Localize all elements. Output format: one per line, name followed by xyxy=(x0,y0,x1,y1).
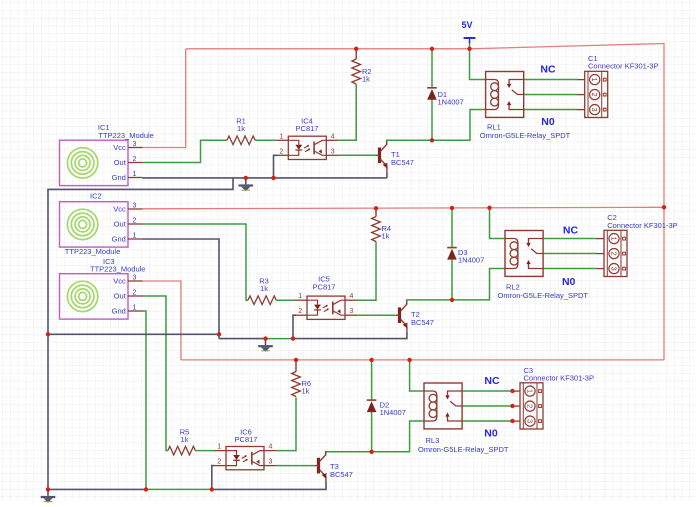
svg-text:2: 2 xyxy=(280,148,284,155)
wire RL3 COM to C3 pin2 xyxy=(462,405,512,407)
wire R3 to IC5 pin1 xyxy=(276,299,295,301)
junction IC4 pin2 xyxy=(271,176,275,180)
junction mid/right bus xyxy=(662,205,666,209)
wire T2 collector node to RL2 coil- xyxy=(407,269,505,305)
resistor R1 1k xyxy=(227,136,255,145)
resistor R4 1k xyxy=(375,208,377,216)
wire ch1 gnd line xyxy=(143,177,387,179)
junction D3/5V xyxy=(450,206,454,210)
wire T1 emitter to gnd xyxy=(386,172,388,178)
svg-text:1: 1 xyxy=(298,293,302,300)
transistor T1 BC547 xyxy=(378,148,381,164)
svg-text:2: 2 xyxy=(610,252,619,256)
wire RL3 NC to C3 pin1 xyxy=(462,390,512,392)
wire RL2 NC to C2 pin1 xyxy=(543,238,597,240)
svg-text:BC547: BC547 xyxy=(330,470,353,479)
svg-text:4: 4 xyxy=(349,293,353,300)
junction C3 pin3 xyxy=(510,419,514,423)
svg-text:Vcc: Vcc xyxy=(113,143,126,152)
wire RL2 NO to C2 pin3 xyxy=(543,268,597,270)
junction D2/5V xyxy=(369,358,373,362)
svg-text:Vcc: Vcc xyxy=(113,205,126,214)
wire IC5 pin4 to R4 xyxy=(357,242,376,301)
junction D3/collector xyxy=(450,298,454,302)
junction RL3 coil feed xyxy=(407,358,411,362)
wire RL1 NC to C1 pin1 xyxy=(524,79,578,81)
junction gnd sym ch2 xyxy=(263,336,267,340)
svg-text:2: 2 xyxy=(133,156,137,163)
svg-text:N0: N0 xyxy=(541,116,555,128)
wire IC1 Out to R1 xyxy=(143,140,228,162)
touch module IC3 TTP223_Module xyxy=(60,274,129,319)
wire RL1 NO to C1 pin3 xyxy=(524,109,578,111)
wire IC6 pin2 to gnd xyxy=(212,466,214,490)
wire gnd bottom bus to T3 emitter xyxy=(212,482,326,489)
connector C1 KF301-3P xyxy=(585,71,608,117)
svg-text:Omron-G5LE-Relay_SPDT: Omron-G5LE-Relay_SPDT xyxy=(480,131,571,140)
wire ch2 gnd line mid green xyxy=(264,338,293,340)
wire IC6 pin4 to R6 xyxy=(276,397,296,450)
svg-text:2: 2 xyxy=(590,93,599,97)
svg-text:1k: 1k xyxy=(362,75,370,84)
svg-text:2: 2 xyxy=(298,308,302,315)
junction ch2 gnd xyxy=(217,332,221,336)
svg-text:Out: Out xyxy=(114,220,127,229)
svg-text:N0: N0 xyxy=(562,276,576,288)
svg-text:1k: 1k xyxy=(237,124,245,133)
svg-text:Connector KF301-3P: Connector KF301-3P xyxy=(588,62,658,71)
svg-text:RL3: RL3 xyxy=(426,436,440,445)
svg-text:Gnd: Gnd xyxy=(112,173,126,182)
wire IC4 pin3 to T1 base xyxy=(338,154,376,156)
relay RL2 Omron-G5LE-Relay_SPDT xyxy=(505,231,543,277)
svg-text:Connector KF301-3P: Connector KF301-3P xyxy=(524,374,594,383)
wire R5 to IC6 pin1 xyxy=(195,450,214,452)
svg-text:3: 3 xyxy=(526,419,535,423)
svg-text:5V: 5V xyxy=(461,20,472,30)
wire gnd bottom bus green xyxy=(146,488,212,490)
svg-text:4: 4 xyxy=(268,444,272,451)
svg-text:1k: 1k xyxy=(181,435,189,444)
svg-text:1: 1 xyxy=(280,133,284,140)
resistor R6 1k xyxy=(295,360,297,372)
svg-text:2: 2 xyxy=(133,289,137,296)
relay RL3 Omron-G5LE-Relay_SPDT xyxy=(424,383,462,429)
svg-text:BC547: BC547 xyxy=(411,318,434,327)
svg-text:BC547: BC547 xyxy=(391,158,414,167)
svg-text:1N4007: 1N4007 xyxy=(380,408,406,417)
wire IC2 Vcc 5V mid bus xyxy=(143,207,665,209)
svg-text:1: 1 xyxy=(133,232,137,239)
svg-text:Out: Out xyxy=(114,158,127,167)
svg-text:Omron-G5LE-Relay_SPDT: Omron-G5LE-Relay_SPDT xyxy=(498,291,589,300)
svg-text:1: 1 xyxy=(133,171,137,178)
junction left bus ch2 xyxy=(46,332,50,336)
junction RL2 coil feed xyxy=(487,206,491,210)
touch module IC2 TTP223_Module xyxy=(60,202,129,247)
wire RL3 NO to C3 pin3 xyxy=(462,420,512,422)
svg-text:1: 1 xyxy=(590,78,599,82)
svg-text:1k: 1k xyxy=(382,232,390,241)
transistor T3 BC547 xyxy=(317,458,320,474)
wire 5V bot to D2 cathode xyxy=(371,360,373,400)
wire 5V to RL1 coil+ xyxy=(470,42,486,80)
resistor R2 1k xyxy=(355,49,357,59)
ground xyxy=(265,339,267,346)
wire IC4 pin2 to gnd xyxy=(274,155,278,178)
svg-text:2: 2 xyxy=(133,217,137,224)
junction D1/5V xyxy=(430,47,434,51)
optocoupler IC6 PC817 xyxy=(226,447,264,470)
svg-text:TTP223_Module: TTP223_Module xyxy=(90,265,145,274)
svg-text:IC2: IC2 xyxy=(90,192,102,201)
wire IC2 Gnd down xyxy=(143,239,220,339)
junction C3 pin2 xyxy=(510,404,514,408)
wire IC5 pin2 to gnd xyxy=(293,315,296,338)
svg-text:Gnd: Gnd xyxy=(112,235,126,244)
wire RL1 COM to C1 pin2 xyxy=(524,94,578,96)
svg-text:3: 3 xyxy=(268,459,272,466)
wire T3 collector node to RL3 coil- xyxy=(326,421,424,455)
svg-text:2: 2 xyxy=(217,459,221,466)
wire IC4 pin4 to R2 xyxy=(338,84,356,140)
wire D2 anode to collector node xyxy=(371,412,373,452)
svg-text:PC817: PC817 xyxy=(296,124,319,133)
junction gnd sym ch1 xyxy=(244,176,248,180)
wire IC3 Vcc down xyxy=(143,281,182,360)
junction IC3 gnd xyxy=(144,487,148,491)
wire T1 collector node to RL1 coil- xyxy=(387,110,486,145)
optocoupler IC5 PC817 xyxy=(307,296,345,319)
svg-text:3: 3 xyxy=(133,202,137,209)
wire IC2 Out to R3 xyxy=(143,224,249,300)
junction gnd bottom left xyxy=(46,487,50,491)
touch module IC1 TTP223_Module xyxy=(60,140,129,185)
wire 5V bot to RL3 coil+ xyxy=(410,360,424,391)
junction D1/collector xyxy=(430,138,434,142)
transistor T2 BC547 xyxy=(398,307,401,323)
wire ch2 gnd link xyxy=(48,333,219,335)
svg-text:PC817: PC817 xyxy=(313,283,336,292)
svg-text:3: 3 xyxy=(349,308,353,315)
diode D3 1N4007 xyxy=(447,247,457,249)
wire RL2 COM to C2 pin2 xyxy=(543,253,597,255)
wire ch2 gnd line left xyxy=(219,338,264,340)
wire gnd left bus lower xyxy=(47,334,49,489)
connector C2 KF301-3P xyxy=(604,230,627,276)
ground xyxy=(47,489,49,496)
wire IC6 pin3 to T3 base xyxy=(276,465,315,467)
resistor R5 1k xyxy=(168,446,196,455)
junction R2/5V xyxy=(354,47,358,51)
svg-text:NC: NC xyxy=(484,375,500,387)
optocoupler IC4 PC817 xyxy=(288,136,326,159)
wire 5V mid to D3 cathode xyxy=(451,208,453,248)
svg-text:1: 1 xyxy=(217,444,221,451)
wire gnd left bus upper xyxy=(48,178,233,334)
wire ch2 gnd line to T2 emitter xyxy=(293,332,407,339)
svg-text:PC817: PC817 xyxy=(235,435,258,444)
wire D3 anode to collector node xyxy=(451,260,453,300)
junction R6/5V xyxy=(294,358,298,362)
svg-text:Connector KF301-3P: Connector KF301-3P xyxy=(607,221,677,230)
wire 5V top bus xyxy=(186,44,664,360)
junction 5V xyxy=(467,47,471,51)
svg-text:1: 1 xyxy=(610,237,619,241)
svg-text:3: 3 xyxy=(331,148,335,155)
junction IC5 pin2 xyxy=(291,336,295,340)
svg-text:3: 3 xyxy=(133,274,137,281)
junction D2/collector xyxy=(369,450,373,454)
svg-text:Gnd: Gnd xyxy=(112,307,126,316)
diode D1 1N4007 xyxy=(427,87,437,89)
wire 5V mid to RL2 coil+ xyxy=(490,208,506,239)
svg-text:1k: 1k xyxy=(260,284,268,293)
junction R4/5V xyxy=(374,206,378,210)
svg-text:NC: NC xyxy=(540,64,556,76)
wire IC3 Out to R5 xyxy=(143,296,168,451)
relay RL1 Omron-G5LE-Relay_SPDT xyxy=(486,72,524,118)
svg-text:Vcc: Vcc xyxy=(113,277,126,286)
diode D2 1N4007 xyxy=(367,399,377,401)
ground xyxy=(245,178,247,185)
wire 5V to D1 cathode xyxy=(431,49,433,88)
wire IC3 Gnd down to gnd bus xyxy=(143,311,147,489)
svg-text:2: 2 xyxy=(526,404,535,408)
svg-text:1k: 1k xyxy=(302,387,310,396)
svg-text:1: 1 xyxy=(133,304,137,311)
junction IC6 pin2 xyxy=(210,487,214,491)
junction C3 pin1 xyxy=(510,389,514,393)
wire R1 to IC4 pin1 xyxy=(255,139,276,141)
svg-text:3: 3 xyxy=(590,108,599,112)
svg-text:3: 3 xyxy=(610,267,619,271)
svg-text:1N4007: 1N4007 xyxy=(458,256,484,265)
svg-text:N0: N0 xyxy=(484,428,498,440)
wire gnd bottom bus left xyxy=(48,488,146,490)
svg-text:4: 4 xyxy=(331,133,335,140)
svg-text:1: 1 xyxy=(526,389,535,393)
svg-text:NC: NC xyxy=(563,225,579,237)
wire 5V bottom bus xyxy=(181,359,664,361)
svg-text:3: 3 xyxy=(133,141,137,148)
resistor R3 1k xyxy=(248,296,276,305)
svg-text:Out: Out xyxy=(114,292,127,301)
wire IC5 pin3 to T2 base xyxy=(357,314,396,316)
svg-text:Omron-G5LE-Relay_SPDT: Omron-G5LE-Relay_SPDT xyxy=(418,445,509,454)
wire D1 anode to collector node xyxy=(431,100,433,141)
svg-text:TTP223_Module: TTP223_Module xyxy=(65,247,120,256)
connector C3 KF301-3P xyxy=(520,383,543,429)
svg-text:1N4007: 1N4007 xyxy=(438,98,464,107)
svg-text:TTP223_Module: TTP223_Module xyxy=(98,131,153,140)
wire IC1 Vcc to 5V bus xyxy=(143,49,186,148)
